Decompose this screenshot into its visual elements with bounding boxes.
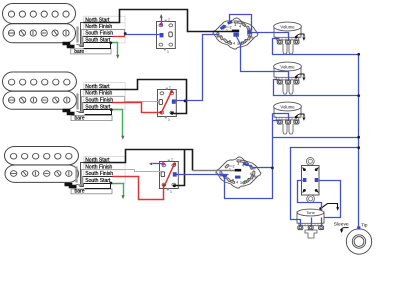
wire label box "bare": [71, 189, 112, 194]
wire: rotary VR1 to Volume1 input (blue): [252, 33, 289, 40]
switch S2 throw (red diagonal): [162, 92, 172, 113]
pickup 2 (middle humbucker): [3, 72, 77, 109]
wire label box "North Finish": [84, 23, 125, 30]
wire: output bus down to jack tip (blue): [358, 55, 360, 227]
wire: pickup2 South Start return (black): [84, 110, 112, 115]
wire: bus to toggle/tone branch (blue): [291, 148, 359, 226]
wire: VR2 right lug up to Volume3 input / down loop (blue): [225, 114, 273, 199]
wire label box "North Start": [84, 83, 125, 90]
ground symbol (tone pot case): [319, 204, 339, 211]
wire label box "North Finish": [84, 163, 125, 170]
wire: pickup2 North Finish to S2 (gray): [84, 97, 160, 102]
junction dots: [109, 42, 112, 45]
wire: pickup3 North Start to switch S3 and rotary VR2 (black): [84, 150, 193, 171]
pickup 1 (neck humbucker): [3, 4, 76, 43]
wire label box "South Finish": [84, 96, 125, 103]
wire: pickup1 South Start underline and drop to bare (black): [84, 43, 111, 49]
wire: Volume1 output to bus (blue): [273, 39, 359, 55]
switch S2 output lug (white): [159, 100, 163, 105]
wire: pickup1 North Finish (gray): [84, 30, 125, 34]
wire bundle from pickup to label boxes: [77, 90, 84, 112]
wire: pickup3 ground pigtail (green) with arrow: [111, 184, 124, 196]
potentiometer Volume 2: [274, 62, 306, 94]
wire: switch S3 ground (purple) with left arrow: [153, 163, 164, 165]
wire: pickup2 ground pigtail (green) with arrow: [112, 110, 123, 137]
wire: pickup1 ground pigtail (green) with arrow: [111, 43, 118, 56]
wire: pickup1 link to S1 (blue): [126, 34, 160, 36]
potentiometer Volume 1: [274, 22, 306, 54]
wire label box "South Start": [84, 177, 125, 184]
svg-text:Sleeve: Sleeve: [334, 222, 349, 228]
switch S2 output lug (blue): [172, 99, 176, 103]
wire: VR2 right lug junction (blue): [259, 167, 273, 169]
wire: switch S1 ground (purple) with up arrow: [161, 18, 163, 25]
rotary switch VR2 (4-pole 6-position): [216, 157, 261, 188]
wire: pickup3 North Finish to S3 (gray): [84, 170, 162, 172]
wire label box "North Start": [84, 16, 125, 23]
switch S3 throw (red diagonal): [165, 164, 175, 186]
wire: S3 output to rotary VR2 (blue): [177, 174, 229, 176]
svg-text:South Finish: South Finish: [85, 31, 113, 37]
toggle switch S4 (master): [302, 157, 320, 202]
wire label box "South Finish": [84, 170, 125, 177]
pickup cable exit (thick black): [63, 111, 75, 114]
wire label box "North Finish": [84, 90, 125, 97]
wire: S2 output to rotary VR1 (blue): [176, 35, 219, 101]
output jack J1: [346, 229, 371, 254]
potentiometer Volume 3: [274, 102, 306, 134]
svg-text:Tone: Tone: [306, 210, 315, 215]
rotary VR1 common lug (black bar): [232, 30, 239, 33]
wire bundle from pickup to label boxes: [77, 23, 84, 45]
label Sleeve with arrow: [334, 222, 349, 233]
jack tip terminal (blue): [357, 226, 360, 229]
switch S1 (coil switch, pickup 1): [157, 18, 176, 54]
pickup 2 cable sheath (gray): [76, 94, 78, 110]
rotary VR2 common lug (black bar): [235, 169, 241, 172]
wire: toggle left lug to tone (blue): [298, 181, 322, 211]
pickup cable exit (thick black): [63, 44, 75, 47]
wire: pickup3 South Finish to S3 (red): [84, 176, 113, 178]
pickup 1 cable sheath (gray): [76, 27, 78, 43]
wire: rotary VR1 jumper loop (blue): [230, 15, 252, 31]
wire: toggle right lug to tone lug3 (blue): [319, 181, 341, 218]
wire: Volume3 output to bus (blue): [273, 121, 359, 138]
wire bundle from pickup to label boxes: [77, 163, 84, 185]
wire label box "bare": [71, 116, 112, 121]
rotary switch VR1 (4-pole 6-position): [213, 18, 258, 49]
rotary VR1 blue lugs: [227, 21, 233, 25]
wire: pickup2 South Finish to S2 (red): [84, 102, 113, 104]
switch S3 output lug (white): [161, 172, 165, 177]
wire label box "bare": [71, 49, 111, 54]
wire: pickup1 North Start to rotary VR1 common (black): [84, 10, 233, 32]
svg-text:Tip: Tip: [361, 223, 368, 228]
wire: Volume2 output to bus (blue): [274, 80, 359, 96]
switch S3 (coil switch, pickup 3): [160, 158, 179, 194]
rotary VR2 blue lugs: [243, 162, 249, 166]
svg-text:North Finish: North Finish: [85, 91, 112, 97]
switch S3 output lug (blue): [173, 172, 177, 176]
svg-text:bare: bare: [75, 189, 85, 195]
svg-text:bare: bare: [74, 49, 84, 55]
switch S2 (coil switch, pickup 2): [158, 86, 177, 122]
switch S3 terminal dots: [173, 162, 176, 165]
wire: gray feed to rotary VR2 common: [193, 170, 236, 172]
potentiometer Tone: [297, 209, 324, 238]
wire: pickup2 North Start to switch S2 (black): [84, 80, 187, 114]
wire: pickup1 South Finish (red tail): [84, 36, 113, 38]
switch S1 input lug (blue): [160, 33, 164, 37]
switch S1 output lug (white): [169, 32, 173, 37]
svg-text:bare: bare: [75, 116, 85, 122]
wire label box "South Start": [84, 36, 125, 43]
wire label box "South Finish": [84, 30, 125, 37]
pickup 3 (bridge humbucker): [5, 147, 79, 183]
wire: pickup3 South Start return (black): [84, 184, 111, 189]
wire: rotary VR1 to Volume2 input (blue): [237, 37, 289, 80]
pickup 3 cable sheath (gray): [75, 167, 77, 183]
wire label box "North Start": [84, 156, 125, 163]
pickup cable exit (thick black): [65, 185, 77, 187]
wire label box "South Start": [84, 103, 125, 110]
switch S2 terminal dots: [170, 90, 173, 93]
